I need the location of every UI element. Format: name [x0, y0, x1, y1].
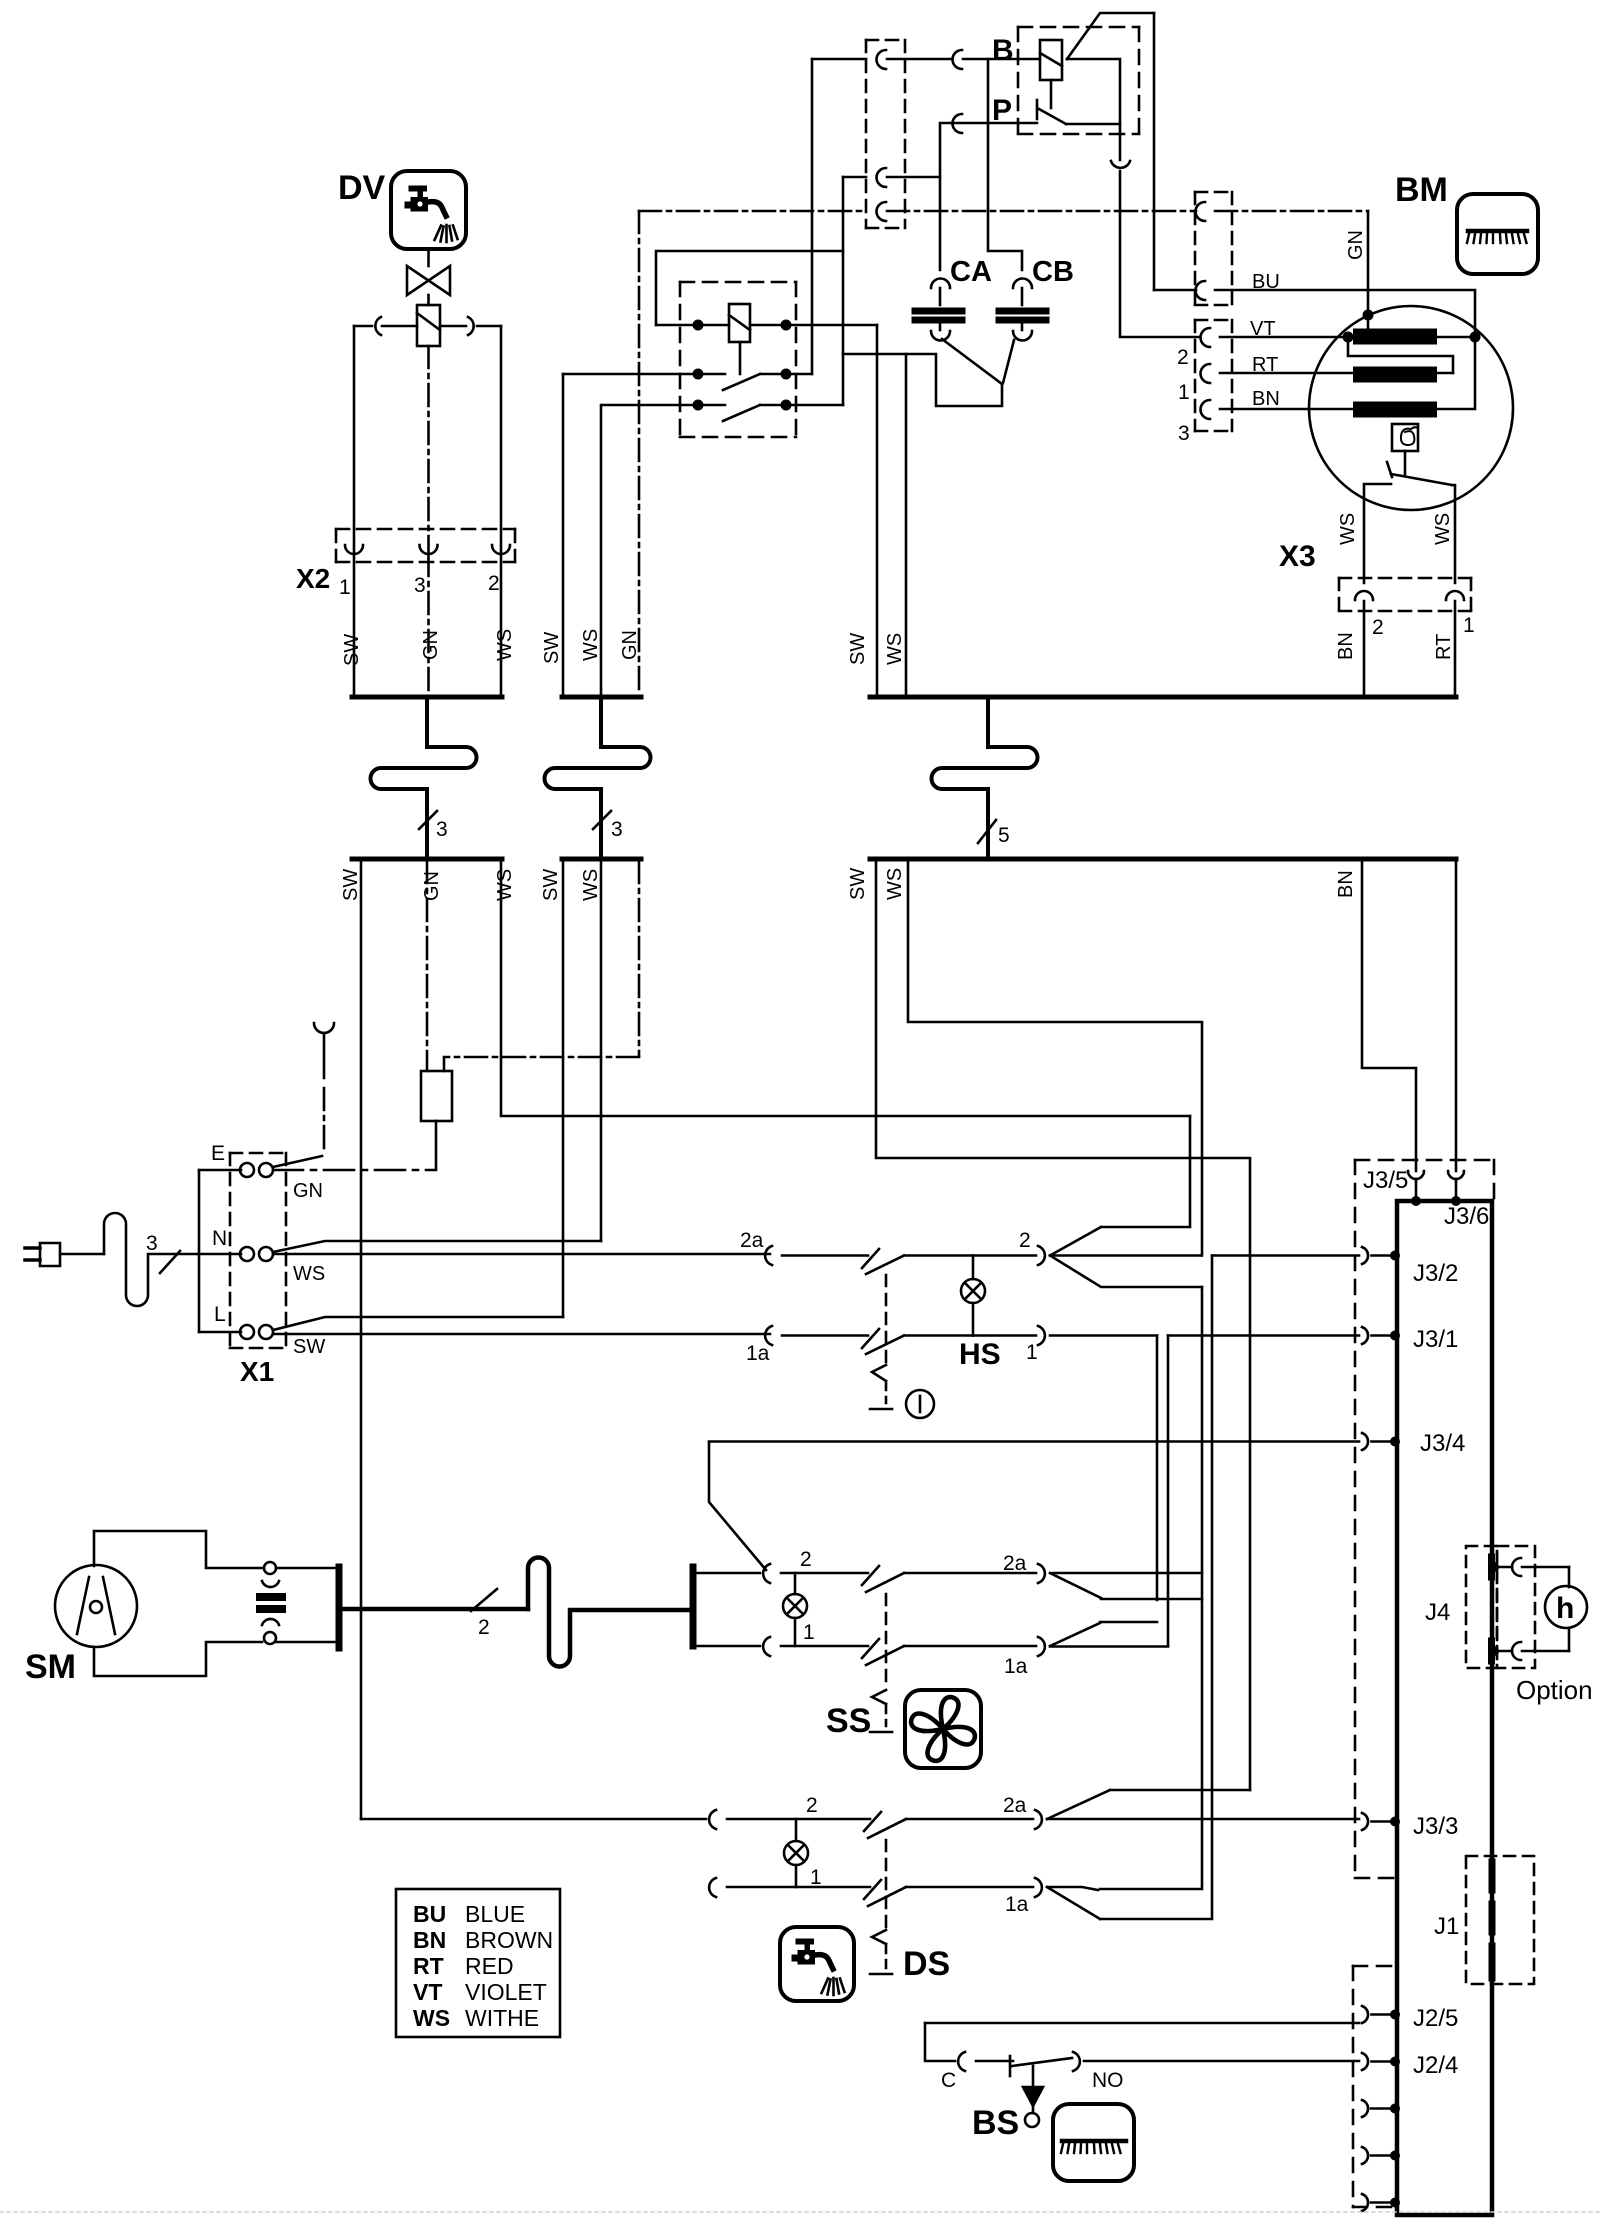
svg-text:SW: SW — [341, 634, 363, 666]
svg-text:2: 2 — [488, 572, 500, 595]
wire WS left drop — [500, 326, 503, 553]
connector box top (dashed) — [866, 40, 905, 228]
svg-text:BU: BU — [413, 1901, 446, 1927]
svg-text:GN: GN — [421, 871, 443, 901]
svg-text:WS: WS — [293, 1263, 325, 1285]
svg-text:2: 2 — [478, 1616, 490, 1639]
svg-text:WS: WS — [1432, 513, 1454, 545]
svg-text:2: 2 — [1019, 1229, 1031, 1252]
contact SS2 left — [763, 1564, 770, 1583]
wire GN below X2 (dash-dot) — [427, 554, 430, 695]
svg-text:BU: BU — [1252, 271, 1280, 293]
wire DV row left — [354, 325, 372, 328]
inline contact P — [953, 114, 963, 133]
wire 1a to switch — [782, 1334, 868, 1337]
wire SM bottom loop — [94, 1642, 262, 1676]
pin X2-3 contact — [420, 545, 438, 554]
switch blade CA — [942, 339, 1002, 384]
wire SW right: bus to cross rail — [876, 861, 1250, 1790]
svg-text:N: N — [212, 1227, 227, 1250]
svg-text:WS: WS — [494, 869, 516, 901]
wire SS2 right — [904, 1572, 1036, 1575]
connector X1 dashed box — [230, 1153, 286, 1348]
svg-text:1: 1 — [803, 1621, 815, 1644]
wire coil link to row B — [739, 342, 742, 374]
wire SS2a straight to 1202 — [1053, 1572, 1202, 1575]
J4 pads on board edge — [1488, 1557, 1495, 1577]
svg-text:SM: SM — [25, 1648, 76, 1686]
thermal switch blade — [1391, 474, 1452, 485]
svg-text:WITHE: WITHE — [465, 2005, 539, 2031]
wire P contact to vertical — [1066, 123, 1120, 126]
wire WS-mid above bus — [600, 405, 603, 695]
switch HS blade 1 — [866, 1336, 904, 1355]
svg-text:h: h — [1556, 1592, 1574, 1625]
wire DS1 right — [906, 1886, 1033, 1889]
coil BP — [1040, 40, 1062, 80]
cable slash 3 mid — [593, 811, 611, 829]
faint page rule — [0, 2211, 1600, 2213]
contact 2a — [1038, 1564, 1045, 1583]
wire 843 vertical up to contact row — [842, 177, 845, 251]
wire plug to cord — [60, 1253, 104, 1256]
pin J2/3 — [1362, 2100, 1368, 2117]
wire SS1 right — [904, 1645, 1036, 1648]
wire J3/4 feed — [709, 1442, 766, 1570]
wire row B left — [563, 373, 725, 376]
junction dot — [781, 320, 792, 331]
wire SW below X2 — [353, 554, 356, 695]
pin N circles — [240, 1247, 254, 1261]
wire winding1-2 link — [1348, 337, 1453, 373]
svg-text:SW: SW — [541, 632, 563, 664]
suppressor arc bottom — [262, 1619, 279, 1625]
contact SS1 left — [763, 1637, 770, 1656]
fan SS1a straight — [1050, 1645, 1168, 1648]
svg-text:3: 3 — [1178, 422, 1190, 445]
contact 2a — [1035, 1810, 1042, 1829]
latch chevron DS — [872, 1930, 886, 1944]
wire VT row — [1220, 336, 1361, 339]
svg-text:B: B — [992, 34, 1014, 67]
wire RT below X3 — [1454, 601, 1457, 697]
contact 1a — [1035, 1878, 1042, 1897]
wire SW-left long drop to DS row2 — [360, 861, 363, 1819]
wire mains into N — [198, 1253, 241, 1256]
junction dot VT left — [1343, 332, 1354, 343]
svg-text:NO: NO — [1092, 2069, 1124, 2092]
wire to blade — [781, 1572, 868, 1575]
blade DS2 — [868, 1819, 906, 1838]
plug prongs — [25, 1246, 40, 1250]
pin J3/4 — [1362, 1433, 1368, 1450]
svg-text:J3/5: J3/5 — [1363, 1167, 1408, 1194]
contact earth right — [1196, 202, 1206, 221]
svg-text:1: 1 — [339, 576, 351, 599]
wire row A right — [750, 324, 877, 327]
wire winding3 right up — [1429, 337, 1475, 409]
X1 left bracket — [198, 1170, 201, 1332]
switch HS tick 1 — [862, 1329, 879, 1348]
svg-text:1a: 1a — [1005, 1893, 1029, 1916]
fan blades — [911, 1697, 975, 1761]
wire RT drop to J3/6 — [1455, 861, 1458, 1171]
svg-text:J3/4: J3/4 — [1420, 1430, 1465, 1457]
svg-text:CB: CB — [1032, 256, 1074, 288]
wire SW-mid below bus to X1-L link — [562, 861, 565, 1317]
svg-text:J3/3: J3/3 — [1413, 1813, 1458, 1840]
svg-text:RT: RT — [413, 1953, 444, 1979]
svg-text:X2: X2 — [296, 563, 330, 594]
wire icon to valve — [427, 249, 430, 266]
wire row A right down to bus — [876, 325, 879, 697]
svg-text:VT: VT — [1250, 318, 1276, 340]
wire DS1a straight — [1047, 1887, 1098, 1890]
svg-text:WS: WS — [580, 869, 602, 901]
icon DV (water tap in rounded box) — [391, 171, 466, 249]
wire row B right up to BP relay B row — [811, 59, 814, 374]
contact 1 — [1038, 1326, 1045, 1345]
wire GN-mid dash-dot above bus — [638, 211, 641, 695]
pin J3/1 — [1362, 1327, 1368, 1344]
junction dot GN — [1363, 310, 1374, 321]
svg-text:RT: RT — [1433, 634, 1455, 660]
svg-text:WS: WS — [413, 2005, 450, 2031]
connector contact (arc) left — [375, 317, 381, 335]
BS button circle — [1025, 2113, 1039, 2127]
svg-text:Option: Option — [1516, 1675, 1593, 1705]
svg-text:1a: 1a — [1004, 1655, 1028, 1678]
blade BS — [1012, 2058, 1072, 2066]
svg-text:3: 3 — [611, 818, 623, 841]
tick SS1 — [862, 1639, 879, 1658]
suppressor bottom pin — [264, 1632, 276, 1644]
capacitor block — [260, 1593, 282, 1601]
svg-text:GN: GN — [619, 630, 641, 660]
wire row C right up-loop — [656, 251, 843, 405]
button I circle — [906, 1390, 934, 1418]
pin J3/2 — [1362, 1247, 1368, 1264]
wire SM top loop — [94, 1531, 262, 1568]
theta symbol — [1401, 427, 1418, 445]
svg-text:VIOLET: VIOLET — [465, 1979, 547, 2005]
contact earth in box — [877, 202, 887, 221]
bus right bottom (thick) — [870, 857, 1456, 862]
wire protector to switch — [1404, 451, 1407, 474]
winding 3 — [1361, 402, 1429, 418]
latch chevron — [872, 1365, 886, 1381]
junction dot VT right — [1470, 332, 1481, 343]
wire drop to VT row — [1120, 171, 1200, 337]
filter box on earth line — [421, 1071, 452, 1121]
wire to WS right — [1452, 485, 1455, 583]
bus mid bottom (thick) — [562, 857, 641, 862]
svg-text:J4: J4 — [1425, 1599, 1450, 1626]
svg-text:DS: DS — [903, 1945, 950, 1983]
wire HS row1 to riser — [1050, 1334, 1157, 1337]
wire earth dash-dot horizontal — [639, 210, 866, 213]
connector box BU (dashed) — [1195, 192, 1232, 305]
svg-text:RED: RED — [465, 1953, 514, 1979]
svg-text:1a: 1a — [746, 1342, 770, 1365]
wire DS row1 stub — [709, 1878, 716, 1897]
wire loop branch to bus — [843, 354, 906, 697]
contact VT — [1201, 328, 1211, 347]
wire 1212 drop (J3/2 to DS1a diag rail) — [1100, 1256, 1212, 1920]
svg-text:2a: 2a — [1003, 1794, 1027, 1817]
latch end bar SS — [870, 1731, 892, 1734]
svg-text:3: 3 — [146, 1232, 158, 1255]
wire L row out (1a feed) — [273, 1333, 770, 1336]
wire NO to J2/4 — [1084, 2060, 1359, 2063]
connector X2 (dashed box) — [336, 529, 515, 562]
svg-text:2: 2 — [1372, 616, 1384, 639]
wire DS row2 left — [361, 1818, 706, 1821]
svg-text:2a: 2a — [740, 1229, 764, 1252]
solenoid coil DV — [417, 305, 440, 346]
cable S-curve right (5 wires) — [932, 699, 1038, 856]
pin J2/1 — [1362, 2194, 1368, 2211]
switch HS tick 2 — [862, 1249, 879, 1268]
svg-text:C: C — [941, 2069, 956, 2092]
mech link DS dashed — [885, 1840, 888, 1928]
pin J4 top — [1489, 1562, 1499, 1572]
wire WS right: bus to vertical 1202 — [908, 861, 1202, 1256]
motor BM circle — [1309, 306, 1513, 510]
connector J3 dashed outline — [1355, 1160, 1494, 1878]
blade SS1 — [866, 1646, 904, 1665]
latch end bar — [870, 1408, 892, 1411]
contact BN — [1201, 400, 1211, 419]
winding 2 — [1361, 367, 1429, 383]
mech link HS dashed — [885, 1275, 888, 1365]
fan SS1a upper — [1050, 1623, 1100, 1646]
thermal protector box — [1392, 424, 1418, 451]
junction dot — [781, 369, 792, 380]
svg-text:VT: VT — [413, 1979, 442, 2005]
wire GN drop to motor — [1367, 211, 1370, 329]
svg-text:BN: BN — [1335, 632, 1357, 660]
wire to contact 2 — [904, 1254, 1036, 1257]
valve DV (bowtie) — [407, 266, 429, 295]
fan 2 straight — [1050, 1254, 1201, 1257]
contact DS2 left — [709, 1810, 716, 1829]
connector J2 dashed outline — [1353, 1966, 1397, 2207]
wire GN-left dash-dot drop to filter — [426, 861, 429, 1071]
earth stub dash-dot — [323, 1088, 326, 1152]
J1 heavy pads on board edge — [1489, 1862, 1496, 1890]
cable S-curve left (3 wires) — [371, 699, 477, 858]
svg-text:1: 1 — [1463, 614, 1475, 637]
icon SS (fan in rounded box) — [905, 1690, 981, 1768]
svg-text:HS: HS — [959, 1338, 1001, 1371]
wire dash-dot to GN corner — [1215, 210, 1368, 213]
svg-text:J2/4: J2/4 — [1413, 2052, 1458, 2079]
svg-text:BN: BN — [1335, 870, 1357, 898]
relay BP dashed box — [1018, 27, 1139, 134]
svg-text:WS: WS — [494, 629, 516, 661]
wire SS1a upper rail — [1100, 1621, 1157, 1624]
bus mid top (thick) — [562, 695, 641, 700]
svg-text:WS: WS — [884, 633, 906, 665]
contact RT — [1201, 364, 1211, 383]
cable slash 3 — [160, 1251, 180, 1273]
svg-text:1: 1 — [810, 1866, 822, 1889]
pin E circles — [240, 1163, 254, 1177]
wire row C right — [760, 404, 843, 407]
pin J3/3 — [1362, 1813, 1368, 1830]
wire row B right — [760, 373, 812, 376]
wire J3/1 row — [1168, 1334, 1359, 1337]
svg-text:SW: SW — [340, 869, 362, 901]
contact below BP — [1111, 161, 1130, 168]
wire CB top loop — [988, 59, 1022, 270]
wire BP right drop — [1153, 13, 1156, 290]
connector box VT/RT/BN (dashed) — [1195, 320, 1232, 431]
pin J2/2 — [1362, 2147, 1368, 2164]
svg-text:BN: BN — [1252, 388, 1280, 410]
wire SS row2 left — [695, 1572, 760, 1575]
cable slash 3 — [419, 811, 437, 829]
wire J2/5 corner to C — [925, 2023, 955, 2061]
svg-text:2: 2 — [806, 1794, 818, 1817]
fan 2 lower — [1050, 1256, 1202, 1288]
connector J4 dashed boxes — [1466, 1546, 1535, 1668]
contact CB top — [1013, 279, 1032, 289]
svg-text:BM: BM — [1395, 171, 1448, 209]
contact CA bottom — [931, 331, 950, 341]
wire DS2 right — [906, 1818, 1033, 1821]
svg-text:SW: SW — [293, 1336, 325, 1358]
wire to blade — [727, 1886, 870, 1889]
wire P column down (CA top) — [940, 123, 952, 270]
wire to blade — [727, 1818, 870, 1821]
pin X3-2 contact — [1355, 591, 1373, 600]
junction dot — [693, 320, 704, 331]
svg-text:DV: DV — [338, 169, 386, 207]
wire WS-left drop then right to HS feed — [501, 861, 1190, 1116]
mech link SS dashed — [885, 1594, 888, 1688]
wire E row dash-dot — [273, 1169, 436, 1172]
connector contact (arc) right — [468, 317, 474, 335]
svg-text:J3/1: J3/1 — [1413, 1326, 1458, 1353]
svg-text:SW: SW — [847, 633, 869, 665]
tick SS2 — [862, 1566, 879, 1585]
svg-text:J3/6: J3/6 — [1444, 1203, 1489, 1230]
blade SS2 — [866, 1573, 904, 1592]
thick wire SM to S-curve — [341, 1607, 528, 1612]
cable S-curve SM (vertical) — [528, 1558, 693, 1667]
contact NO — [1073, 2052, 1080, 2071]
winding 1 — [1361, 329, 1429, 345]
wire BN row — [1220, 408, 1361, 411]
earth stub arc — [314, 1023, 334, 1033]
svg-text:5: 5 — [998, 824, 1010, 847]
wire WS-mid below bus to X1-N link — [600, 861, 603, 1241]
suppressor arc top — [262, 1581, 279, 1587]
legend box — [396, 1889, 560, 2037]
junction dot — [781, 400, 792, 411]
pin J2/5 — [1362, 2006, 1368, 2023]
blade DS1 — [868, 1887, 906, 1906]
wire BU row — [1154, 289, 1196, 292]
svg-text:WS: WS — [1337, 513, 1359, 545]
wire BN below X3 — [1363, 601, 1366, 697]
pin J3/5 — [1408, 1171, 1424, 1179]
wire mid contact row — [843, 176, 866, 179]
pin J3/6 — [1448, 1171, 1464, 1179]
wire 1168 drop (HS1 to SS1a) — [1167, 1336, 1170, 1647]
pin J4 bottom — [1489, 1646, 1499, 1656]
contact CA top — [931, 279, 950, 289]
svg-text:2: 2 — [800, 1548, 812, 1571]
wire 2a to switch — [782, 1254, 868, 1257]
fan DS2a upper — [1047, 1790, 1110, 1819]
wire N diagonal — [273, 1241, 601, 1252]
switch P blade — [1039, 109, 1066, 124]
terminal bar SM — [336, 1567, 343, 1648]
wire 1250 to DS2a rail — [1110, 1789, 1250, 1792]
wire DS2a to J3/3 — [1047, 1818, 1359, 1821]
wire B continuation — [1067, 59, 1120, 160]
switch blade CB — [1003, 340, 1014, 383]
svg-text:CA: CA — [950, 256, 992, 288]
wire to WS left — [1364, 484, 1391, 583]
latch chevron SS — [872, 1690, 886, 1704]
wire to blade — [781, 1645, 868, 1648]
wire cap common — [906, 354, 1002, 406]
earth diagonal to E pin — [273, 1156, 322, 1167]
wire J2/5 rail — [925, 2022, 1359, 2025]
latch end bar DS — [870, 1973, 892, 1976]
mech diagonal BP — [1067, 13, 1154, 59]
terminal bar SS — [690, 1567, 697, 1646]
wire winding2 right — [1429, 372, 1453, 375]
wire B row from relay column — [812, 58, 866, 61]
fan SS2a lower — [1050, 1573, 1101, 1598]
icon DS (tap in rounded box) — [780, 1927, 854, 2001]
wire GN dash-dot drop — [427, 346, 430, 553]
contact 2a — [765, 1246, 772, 1265]
wire valve stem — [427, 295, 430, 305]
wire WS below X2 — [500, 554, 503, 695]
tick DS1 — [864, 1880, 881, 1899]
bus right top (thick) — [870, 695, 1456, 700]
pin X2-1 contact — [345, 545, 363, 554]
cable slash 2 — [471, 1589, 497, 1611]
svg-text:2: 2 — [1177, 346, 1189, 369]
svg-text:J1: J1 — [1434, 1913, 1459, 1940]
svg-text:BN: BN — [413, 1927, 446, 1953]
svg-text:GN: GN — [420, 630, 442, 660]
capacitor CA — [915, 308, 962, 315]
lamp DS — [784, 1841, 808, 1865]
wire HS feed riser — [1101, 1116, 1190, 1227]
svg-text:J2/5: J2/5 — [1413, 2005, 1458, 2032]
pin L circles — [240, 1325, 254, 1339]
svg-text:WS: WS — [580, 629, 602, 661]
bus X2 bottom (thick) — [352, 857, 502, 862]
svg-text:2a: 2a — [1003, 1552, 1027, 1575]
BS actuator arrow — [1032, 2066, 1035, 2087]
svg-text:3: 3 — [414, 574, 426, 597]
svg-text:E: E — [211, 1142, 225, 1165]
contact BU — [1196, 281, 1206, 300]
cable slash 5 — [978, 820, 996, 843]
svg-text:X3: X3 — [1279, 540, 1316, 573]
wire C to blade — [976, 2060, 1013, 2063]
relay K coil — [729, 304, 750, 342]
